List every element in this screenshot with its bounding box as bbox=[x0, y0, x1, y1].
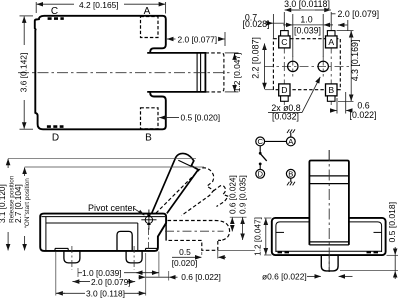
svg-text:2.7 [0.104]: 2.7 [0.104] bbox=[14, 184, 23, 223]
dim 0.9 [0.035] travel bbox=[242, 218, 244, 240]
svg-text:ø0.6 [0.022]: ø0.6 [0.022] bbox=[262, 271, 307, 281]
terminal lead right (side view) bbox=[126, 251, 142, 263]
dim 0.6 [0.022] pad to edge bbox=[330, 92, 353, 114]
svg-text:A: A bbox=[328, 37, 334, 47]
svg-text:3.6 [0.142]: 3.6 [0.142] bbox=[19, 53, 29, 93]
actuator dashed extension (free position) bbox=[205, 53, 224, 92]
dim 2.0 [0.079] bbox=[332, 14, 348, 31]
dim 0.5 [0.018] pin protrusion bbox=[340, 247, 398, 279]
svg-text:“ON”start position: “ON”start position bbox=[24, 178, 31, 229]
node B bbox=[286, 169, 295, 178]
svg-text:B: B bbox=[288, 170, 293, 179]
dim 3.0 [0.0118] bbox=[284, 10, 331, 27]
svg-text:D: D bbox=[281, 85, 287, 95]
label B bbox=[145, 132, 152, 143]
locating pin bottom bbox=[321, 255, 338, 271]
dim 0.5 [0.020] overtravel bbox=[172, 251, 226, 259]
terminal A hidden outline bbox=[141, 17, 159, 38]
svg-text:1.2 [0.047]: 1.2 [0.047] bbox=[232, 53, 242, 93]
terminal marks bottom corners bbox=[278, 251, 381, 253]
locating hole left bbox=[288, 61, 298, 71]
svg-text:3.0 [0.0118]: 3.0 [0.0118] bbox=[284, 0, 330, 9]
svg-text:[0.022]: [0.022] bbox=[350, 110, 377, 120]
wire B to frame bbox=[290, 178, 292, 182]
svg-text:C: C bbox=[257, 137, 263, 146]
terminal lead left (side view) bbox=[64, 251, 80, 263]
dim 3.6 [0.142] bbox=[20, 16, 34, 129]
svg-text:1.0: 1.0 bbox=[300, 14, 312, 24]
centerline over plunger bbox=[328, 150, 330, 272]
svg-text:B: B bbox=[328, 85, 334, 95]
svg-text:B: B bbox=[145, 132, 152, 143]
pad D bbox=[279, 84, 290, 101]
switch contact dot at C bbox=[259, 152, 262, 155]
body inner wall front view bbox=[276, 222, 382, 252]
svg-text:3.0 [0.118]: 3.0 [0.118] bbox=[86, 289, 125, 298]
dim dia 0.6 [0.022] pin bbox=[307, 275, 353, 277]
hidden body outline (dashed) bbox=[273, 39, 340, 90]
dim 2.0 [0.077] actuator travel bbox=[167, 32, 225, 46]
extension lines below side view bbox=[56, 252, 169, 296]
body outline side view bbox=[40, 214, 166, 251]
terminal centerlines bbox=[72, 228, 149, 270]
label A bbox=[144, 6, 151, 17]
lever dashed mid position bbox=[156, 168, 214, 216]
terminal C hidden mark bbox=[48, 17, 64, 20]
note 2x dia 0.8 with leader bbox=[271, 103, 300, 113]
dim 1.2 [0.047] body height bbox=[264, 218, 271, 255]
frame symbol below B bbox=[287, 182, 295, 186]
lever arm (release position) bbox=[152, 153, 199, 213]
lever dashed pressed position tip bbox=[213, 185, 228, 206]
centerline front view bbox=[328, 150, 330, 272]
wire C to A bbox=[265, 140, 287, 142]
svg-text:2.0 [0.079]: 2.0 [0.079] bbox=[91, 277, 131, 287]
svg-text:0.5 [0.020]: 0.5 [0.020] bbox=[181, 113, 221, 123]
dim 2.7 [0.104] ON start position bbox=[25, 167, 204, 250]
body outline top view bbox=[35, 16, 166, 130]
plunger band lines bbox=[309, 176, 349, 245]
ext line bump bottom bbox=[219, 249, 256, 251]
pad B bbox=[326, 84, 338, 101]
svg-text:1.2 [0.047]: 1.2 [0.047] bbox=[254, 217, 263, 256]
terminal D hidden mark bbox=[47, 125, 64, 128]
label D bbox=[52, 132, 59, 143]
node A bbox=[286, 137, 295, 146]
dim 0.5 [0.020] terminal offset bbox=[159, 117, 179, 119]
dim 4.2 [0.165] bbox=[36, 2, 165, 14]
bottom edge step marks bbox=[55, 248, 158, 251]
dim 2.0 [0.079] bbox=[72, 281, 135, 283]
pad C bbox=[279, 31, 290, 48]
svg-text:2.0 [0.079]: 2.0 [0.079] bbox=[338, 9, 380, 19]
node C bbox=[256, 137, 265, 146]
actuator pressed centerline bbox=[165, 230, 224, 232]
dim 1.2 [0.047] actuator width bbox=[225, 53, 239, 92]
svg-text:2.0 [0.077]: 2.0 [0.077] bbox=[178, 34, 218, 44]
switch blade (open) bbox=[261, 154, 267, 161]
actuator (solid, released) bbox=[147, 53, 205, 92]
label C bbox=[51, 6, 58, 17]
dim 0.6 [0.024] travel bbox=[230, 217, 247, 231]
frame symbol above A bbox=[287, 129, 295, 133]
actuator dashed pressed position (horizontal) bbox=[168, 221, 230, 251]
svg-text:Pivot center: Pivot center bbox=[88, 203, 136, 213]
body outline front view bbox=[272, 218, 386, 255]
terminal B hidden outline bbox=[141, 108, 159, 129]
svg-text:[0.020]: [0.020] bbox=[172, 258, 198, 268]
svg-text:2.2 [0.087]: 2.2 [0.087] bbox=[251, 37, 261, 79]
wire D to switch contact bbox=[259, 165, 261, 170]
dim 4.3 [0.169] bbox=[337, 31, 354, 102]
dim 3.0 [0.118] bbox=[56, 292, 146, 294]
svg-text:[0.039]: [0.039] bbox=[294, 26, 321, 36]
svg-text:C: C bbox=[281, 37, 287, 47]
dim 1.0 [0.039] bbox=[78, 272, 159, 274]
plunger (actuator) front view bbox=[309, 161, 349, 245]
locating hole right bbox=[318, 61, 328, 71]
pivot center symbol bbox=[141, 210, 156, 230]
svg-text:A: A bbox=[144, 6, 151, 17]
svg-text:D: D bbox=[257, 170, 263, 179]
dim 2.2 [0.087] bbox=[265, 44, 275, 90]
svg-text:[0.028]: [0.028] bbox=[243, 19, 270, 29]
svg-text:4.3 [0.169]: 4.3 [0.169] bbox=[350, 40, 360, 82]
wire A to frame bbox=[290, 133, 292, 137]
body inner rim lines bbox=[42, 217, 166, 251]
svg-text:0.6 [0.024]: 0.6 [0.024] bbox=[228, 175, 237, 214]
svg-text:0.6 [0.022]: 0.6 [0.022] bbox=[181, 272, 221, 282]
dim 1.0 [0.039] hole pitch bbox=[283, 14, 333, 57]
pad A bbox=[326, 31, 338, 48]
node D bbox=[256, 169, 265, 178]
svg-text:C: C bbox=[51, 6, 58, 17]
wire C to switch contact bbox=[259, 146, 261, 152]
svg-text:0.9 [0.035]: 0.9 [0.035] bbox=[239, 175, 248, 214]
svg-text:4.2 [0.165]: 4.2 [0.165] bbox=[79, 0, 119, 10]
svg-text:D: D bbox=[52, 132, 59, 143]
label Pivot center with leader bbox=[88, 203, 136, 213]
centerlines land pattern bbox=[265, 27, 350, 105]
svg-text:0.5 [0.018]: 0.5 [0.018] bbox=[387, 202, 397, 243]
molded boss inside body bbox=[117, 231, 132, 250]
switch contact dot at D bbox=[259, 163, 262, 166]
dim 3.1 [0.120] release position bbox=[8, 158, 196, 250]
svg-text:0.5: 0.5 bbox=[179, 247, 191, 257]
dim 0.6 [0.022] bbox=[139, 276, 178, 278]
dim 0.7 [0.028] bbox=[267, 14, 285, 38]
centerline top view bbox=[18, 72, 230, 74]
svg-text:3.1 [0.120]: 3.1 [0.120] bbox=[0, 184, 7, 223]
